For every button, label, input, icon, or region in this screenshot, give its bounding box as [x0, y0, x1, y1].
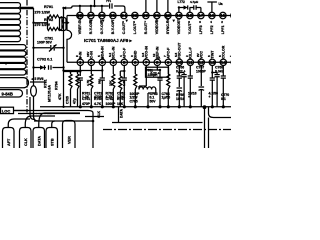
svg-text:L772: L772 — [178, 0, 185, 4]
IC701 pin 25 — [110, 12, 116, 18]
wire pin1 — [64, 65, 81, 71]
IC701 pin 14 — [220, 59, 226, 65]
svg-text:1.2K: 1.2K — [122, 79, 126, 86]
IC701 pin 23 — [132, 12, 138, 18]
svg-text:AFC-F: AFC-F — [123, 47, 127, 59]
wire: rail x63.5 — [63, 8, 65, 107]
svg-text:5.5: 5.5 — [174, 52, 178, 57]
svg-text:R792: R792 — [44, 18, 53, 22]
svg-text:4.7μH: 4.7μH — [190, 0, 198, 4]
transformer T791 lower winding — [0, 45, 26, 50]
svg-text:VER: VER — [68, 136, 72, 144]
svg-text:C702 0.1: C702 0.1 — [37, 57, 52, 61]
IC701 pin 24 — [121, 12, 127, 18]
IC701 pin 10 — [176, 59, 182, 65]
wire pin9 — [167, 65, 169, 74]
IC701 pin 27 — [88, 12, 94, 18]
wire: thick feed from T791 — [20, 7, 34, 10]
svg-text:470P: 470P — [82, 102, 91, 106]
svg-text:4.7K: 4.7K — [94, 102, 102, 106]
connector pin STB — [46, 128, 58, 149]
svg-text:16V: 16V — [86, 52, 90, 57]
svg-text:LPF3: LPF3 — [199, 25, 203, 34]
IC701 pin 28 — [77, 12, 83, 18]
IC701 pin 5 — [121, 59, 127, 65]
wire: thick verticals bottom right — [204, 107, 206, 148]
wire pin14 — [222, 65, 224, 76]
wire — [30, 81, 46, 83]
resistor R764 — [120, 71, 124, 76]
svg-text:R-OUT: R-OUT — [144, 22, 148, 34]
wire: top pins bus — [66, 6, 125, 13]
svg-text:8.2: 8.2 — [108, 52, 112, 57]
svg-text:C705: C705 — [66, 96, 70, 104]
connector label 9-84B — [0, 90, 23, 97]
electrolytic C770 — [199, 86, 205, 88]
wire: thick bottom-left bus — [34, 120, 93, 122]
wire — [14, 110, 29, 112]
wire: right corner to edge — [209, 107, 232, 118]
resistor R702 — [69, 74, 72, 89]
svg-text:9V: 9V — [196, 53, 200, 57]
wire: DATA drop — [118, 107, 120, 123]
wire: thin right bus — [112, 122, 203, 124]
svg-text:13: 13 — [210, 60, 216, 65]
label box LOC — [1, 107, 14, 113]
electrolytic C769 — [177, 87, 183, 89]
svg-text:0.047: 0.047 — [215, 69, 224, 73]
IC701 pin 6 — [132, 59, 138, 65]
svg-text:10K: 10K — [109, 80, 113, 86]
svg-text:9-84B: 9-84B — [2, 91, 13, 96]
capacitor C771 — [210, 78, 215, 80]
wire pin13 — [211, 65, 213, 78]
wire pin7 — [146, 65, 160, 76]
IC701 pin 19 — [176, 12, 182, 18]
svg-text:Ua: Ua — [219, 2, 223, 6]
ferrite bead L781 — [31, 86, 37, 97]
IC701 pin 13 — [209, 59, 215, 65]
wire: pins to top edge — [146, 0, 168, 13]
resistor R766 — [167, 74, 170, 89]
IC701 pin 17 — [198, 12, 204, 18]
svg-text:LPF2: LPF2 — [210, 25, 214, 34]
svg-text:APC-F: APC-F — [167, 47, 171, 59]
transformer T791 bottom winding — [0, 78, 29, 88]
connector pin AFT — [3, 128, 15, 149]
wire pin10 — [178, 65, 180, 76]
IC701 pin 14 — [231, 12, 237, 18]
svg-text:21: 21 — [154, 13, 160, 18]
capacitor pair — [212, 73, 217, 75]
svg-text:R784: R784 — [55, 81, 59, 90]
svg-text:SYNC-OUT: SYNC-OUT — [166, 15, 170, 35]
svg-text:27: 27 — [88, 13, 94, 18]
svg-text:R767: R767 — [117, 97, 125, 101]
svg-text:STB: STB — [51, 138, 55, 146]
IC701 pin 3 — [99, 59, 105, 65]
svg-text:+: + — [209, 95, 211, 99]
wire: pin16 top — [207, 2, 217, 13]
capacitor C766 0.22 — [157, 78, 162, 80]
IC701 pin 20 — [165, 12, 171, 18]
signal arrows — [90, 20, 93, 23]
svg-text:4.7K: 4.7K — [86, 79, 90, 86]
wire pin2 — [90, 65, 92, 74]
svg-text:KILL-F: KILL-F — [189, 46, 193, 58]
node: big junction — [203, 105, 207, 109]
wire pin3 — [64, 65, 102, 78]
IC701 pin 12 — [198, 59, 204, 65]
svg-text:MTZJ5.6A: MTZJ5.6A — [48, 85, 52, 102]
capacitor C703 — [110, 3, 112, 8]
IC701 pin 26 — [99, 12, 105, 18]
IC701 pin 11 — [187, 59, 193, 65]
svg-text:50V: 50V — [150, 99, 157, 103]
svg-text:SCL-IN: SCL-IN — [112, 46, 116, 58]
svg-text:15: 15 — [220, 13, 226, 18]
resistor R761 — [90, 74, 93, 89]
svg-text:GND: GND — [134, 50, 138, 58]
wire: signal runs to connector — [14, 111, 104, 117]
svg-text:24: 24 — [121, 13, 127, 18]
wire pill risers — [8, 119, 30, 128]
shield boundary (dash-dot) vertical — [26, 0, 28, 113]
svg-text:1μ/50: 1μ/50 — [162, 96, 171, 100]
svg-text:47K: 47K — [58, 93, 62, 100]
svg-text:16: 16 — [209, 13, 215, 18]
wire: second thick drop — [30, 97, 35, 120]
svg-text:771: 771 — [106, 0, 111, 3]
IC701 pin 8 — [154, 59, 160, 65]
svg-text:19: 19 — [176, 13, 182, 18]
connector pin DATA — [33, 128, 45, 149]
wire rails for R791/R792 — [34, 17, 67, 30]
wire pin8 — [159, 76, 161, 78]
svg-text:C765: C765 — [130, 99, 138, 103]
svg-text:270 1/2W: 270 1/2W — [35, 10, 51, 14]
connector pin VER — [63, 121, 76, 149]
IC701 pin 4 — [110, 59, 116, 65]
svg-text:22: 22 — [143, 13, 149, 18]
svg-text:CLK: CLK — [97, 110, 101, 118]
node: rail x33.5 — [33, 8, 35, 86]
svg-text:3.6: 3.6 — [141, 52, 145, 57]
svg-text:C761: C761 — [82, 97, 90, 101]
svg-text:VREF-OUT: VREF-OUT — [78, 15, 82, 34]
svg-text:LPF1: LPF1 — [221, 25, 225, 34]
svg-text:+: + — [188, 95, 190, 99]
IC701 pin 21 — [154, 12, 160, 18]
wire pin4 — [112, 65, 114, 74]
wire pin5 — [123, 65, 125, 78]
inductor L761 220uH — [139, 87, 156, 90]
svg-text:0.1: 0.1 — [221, 97, 226, 101]
diode D702 — [40, 65, 45, 70]
svg-text:LOC: LOC — [2, 108, 11, 113]
svg-text:TINT: TINT — [211, 50, 215, 59]
svg-text:C762: C762 — [106, 97, 114, 101]
svg-text:47μ: 47μ — [73, 98, 77, 104]
capacitor pair — [179, 73, 184, 75]
transformer T791 upper winding — [0, 3, 21, 8]
capacitor C705 — [78, 78, 83, 80]
wire pin12 — [200, 65, 202, 86]
winding polarity arrow — [5, 63, 8, 66]
svg-text:Y-OUT: Y-OUT — [188, 22, 192, 34]
svg-text:10: 10 — [177, 60, 183, 65]
svg-text:CLK: CLK — [24, 138, 28, 146]
svg-text:11: 11 — [188, 60, 193, 65]
capacitor C768 — [188, 76, 193, 78]
connector J701 — [60, 18, 67, 31]
capacitor C761 — [100, 78, 105, 80]
svg-text:L-OUT: L-OUT — [133, 22, 137, 34]
svg-text:26: 26 — [99, 13, 105, 18]
IC701 pin 22 — [143, 12, 149, 18]
wire elbows — [88, 111, 93, 149]
svg-text:560: 560 — [97, 79, 101, 84]
svg-text:25: 25 — [110, 13, 116, 18]
wire pin11 — [189, 65, 191, 76]
resistor R762 — [112, 74, 115, 89]
IC701 pin 16 — [209, 12, 215, 18]
IC701 pin 15 — [220, 12, 226, 18]
svg-text:17: 17 — [198, 13, 204, 18]
svg-text:14: 14 — [221, 60, 227, 65]
svg-text:12: 12 — [152, 53, 156, 57]
connector pin CLK — [20, 128, 32, 149]
svg-text:FSC-OUT: FSC-OUT — [178, 42, 182, 59]
svg-text:IC701 TA8690AJ AF9 ▸: IC701 TA8690AJ AF9 ▸ — [84, 38, 133, 43]
svg-text:100P 50V: 100P 50V — [37, 40, 53, 44]
svg-text:1000P: 1000P — [106, 102, 117, 106]
capacitor C762 — [122, 78, 127, 80]
svg-text:SDA-IN: SDA-IN — [101, 46, 105, 59]
svg-text:18: 18 — [187, 13, 193, 18]
IC701 pin 2 — [88, 59, 94, 65]
IC701 pin 7 — [143, 59, 149, 65]
svg-text:DATA: DATA — [120, 109, 124, 118]
resistor R703 — [76, 74, 79, 89]
ground bus — [40, 106, 231, 108]
svg-text:R791: R791 — [44, 5, 53, 9]
svg-text:0.22 +: 0.22 + — [151, 72, 160, 76]
svg-text:VCC: VCC — [200, 51, 204, 59]
svg-text:R765: R765 — [94, 97, 102, 101]
op-amp U1 : IC701 TA8690AJ body — [67, 16, 72, 63]
svg-text:1000P: 1000P — [196, 69, 207, 73]
svg-text:12: 12 — [199, 60, 205, 65]
svg-text:AFT: AFT — [7, 138, 11, 146]
IC701 pin 1 — [77, 59, 83, 65]
resistor R763 — [134, 74, 137, 89]
shield boundary (dash-dot) horizontal bottom — [103, 129, 231, 131]
wire pin6 — [134, 65, 136, 74]
svg-text:10/16: 10/16 — [176, 97, 185, 101]
diode D772 + C772 top right — [179, 8, 201, 13]
arrow to shield — [63, 6, 67, 9]
svg-text:DATA: DATA — [38, 136, 42, 146]
svg-text:C-OUT: C-OUT — [122, 22, 126, 34]
svg-text:23: 23 — [132, 13, 138, 18]
IC701 pin 15 — [231, 59, 237, 65]
svg-text:VCO-IN: VCO-IN — [145, 46, 149, 59]
svg-text:0.22 +: 0.22 + — [176, 69, 186, 73]
svg-text:C-IN: C-IN — [90, 51, 94, 59]
IC701 pin 18 — [187, 12, 193, 18]
shield boundary (dash-dot) mid segment — [30, 113, 52, 115]
svg-text:◄ 5 RV6: ◄ 5 RV6 — [31, 77, 44, 81]
IC701 pin 9 — [165, 59, 171, 65]
svg-text:COLOR: COLOR — [222, 45, 226, 58]
svg-text:10K: 10K — [117, 102, 124, 106]
capacitor C767 — [177, 76, 182, 78]
